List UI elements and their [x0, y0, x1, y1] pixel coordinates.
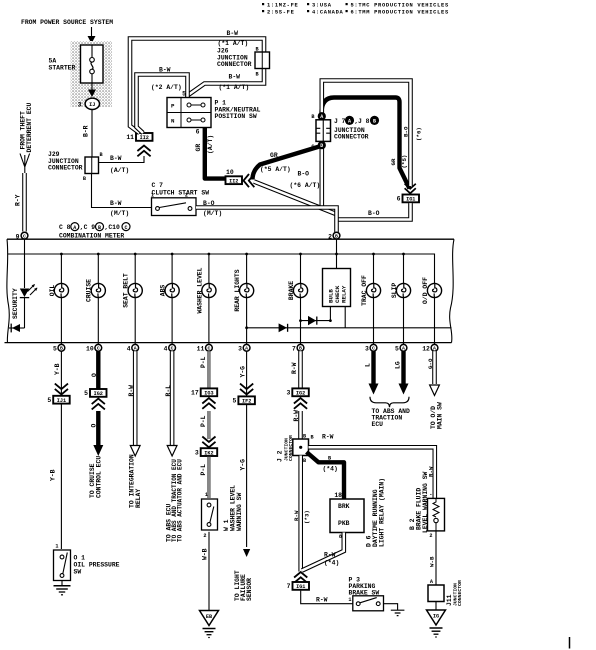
- svg-text:SEAT BELT: SEAT BELT: [123, 273, 130, 308]
- svg-text:3: 3: [286, 390, 290, 397]
- svg-text:(*3): (*3): [303, 510, 310, 524]
- svg-text:(*4): (*4): [323, 466, 338, 473]
- svg-text:2:5S-FE: 2:5S-FE: [267, 10, 295, 16]
- svg-text:G-O: G-O: [427, 358, 434, 369]
- svg-text:L: L: [365, 363, 372, 367]
- svg-text:B-W: B-W: [227, 30, 239, 37]
- svg-text:J 7: J 7: [334, 118, 346, 125]
- svg-text:C: C: [171, 346, 174, 352]
- svg-text:P-L: P-L: [200, 356, 207, 368]
- svg-text:POSITION SW: POSITION SW: [215, 113, 257, 120]
- svg-text:7: 7: [287, 583, 291, 590]
- svg-text:2: 2: [328, 233, 332, 240]
- svg-text:C: C: [23, 234, 26, 240]
- svg-text:P: P: [171, 103, 175, 110]
- svg-text:B-O: B-O: [402, 126, 409, 137]
- svg-text:B-O: B-O: [298, 170, 310, 177]
- svg-text:C: C: [124, 225, 127, 231]
- svg-text:,C10: ,C10: [105, 224, 121, 231]
- svg-text:OIL: OIL: [49, 285, 56, 297]
- svg-text:CRUISE: CRUISE: [86, 279, 93, 302]
- svg-text:5: 5: [53, 345, 57, 352]
- svg-text:SENSOR: SENSOR: [246, 578, 253, 601]
- svg-text:P-L: P-L: [200, 415, 207, 427]
- svg-text:C: C: [372, 346, 375, 352]
- svg-text:(*6 A/T): (*6 A/T): [290, 182, 321, 189]
- svg-text:(*5 A/T): (*5 A/T): [260, 166, 291, 173]
- svg-text:B-O: B-O: [368, 210, 380, 217]
- svg-text:B: B: [83, 176, 86, 182]
- svg-text:B: B: [303, 458, 306, 464]
- svg-text:10: 10: [226, 169, 234, 176]
- svg-text:B: B: [256, 46, 259, 52]
- svg-text:CONNECTOR: CONNECTOR: [457, 580, 463, 606]
- svg-text:4: 4: [127, 345, 131, 352]
- svg-text:P-L: P-L: [200, 464, 207, 476]
- svg-text:IG2: IG2: [296, 391, 305, 397]
- svg-text:2: 2: [429, 533, 432, 539]
- svg-text:9: 9: [16, 233, 20, 240]
- svg-text:W-B: W-B: [202, 548, 209, 560]
- svg-text:CONNECTOR: CONNECTOR: [48, 165, 83, 172]
- svg-text:J 2: J 2: [276, 450, 283, 462]
- svg-text:WARNING SW: WARNING SW: [236, 492, 243, 531]
- svg-text:10: 10: [86, 345, 94, 352]
- svg-text:LEVEL WARNING SW: LEVEL WARNING SW: [422, 471, 429, 533]
- svg-text:SLIP: SLIP: [391, 283, 398, 299]
- svg-text:12: 12: [422, 345, 430, 352]
- svg-text:B-W: B-W: [159, 66, 171, 73]
- svg-text:B: B: [335, 234, 338, 240]
- svg-text:R-W: R-W: [291, 362, 298, 374]
- svg-text:O: O: [90, 424, 97, 428]
- svg-text:J11: J11: [446, 594, 453, 606]
- svg-text:(*5): (*5): [401, 155, 408, 169]
- svg-text:II2: II2: [140, 135, 149, 141]
- svg-text:5: 5: [84, 390, 88, 397]
- svg-text:STARTER: STARTER: [49, 65, 76, 72]
- svg-text:18: 18: [334, 492, 342, 499]
- svg-text:5: 5: [47, 397, 51, 404]
- svg-text:B-W: B-W: [110, 200, 122, 207]
- svg-text:PKB: PKB: [338, 520, 350, 527]
- svg-text:GR: GR: [270, 152, 278, 159]
- svg-text:R-W: R-W: [293, 510, 300, 521]
- svg-text:5A: 5A: [49, 58, 57, 65]
- svg-text:(*2 A/T): (*2 A/T): [151, 84, 182, 91]
- svg-text:RELAY: RELAY: [340, 285, 347, 303]
- svg-text:Y-B: Y-B: [50, 469, 57, 481]
- svg-text:1:1MZ-FE: 1:1MZ-FE: [267, 3, 299, 9]
- svg-text:1: 1: [151, 193, 154, 199]
- svg-text:C: C: [97, 346, 100, 352]
- svg-text:2: 2: [203, 533, 206, 539]
- svg-text:1: 1: [55, 544, 58, 550]
- svg-text:7: 7: [292, 345, 296, 352]
- svg-text:11: 11: [197, 345, 205, 352]
- svg-text:IG: IG: [433, 614, 439, 620]
- svg-text:C: C: [207, 346, 210, 352]
- svg-text:C 8: C 8: [59, 224, 71, 231]
- svg-text:Y-B: Y-B: [54, 363, 61, 375]
- svg-text:J 8: J 8: [358, 118, 370, 125]
- svg-text:R-L: R-L: [165, 385, 172, 397]
- svg-text:5:TMC PRODUCTION VEHICLES: 5:TMC PRODUCTION VEHICLES: [351, 3, 449, 9]
- svg-text:R-W: R-W: [293, 410, 300, 422]
- svg-text:B: B: [256, 71, 259, 77]
- svg-text:B: B: [373, 118, 376, 124]
- svg-text:IJ: IJ: [89, 102, 95, 108]
- svg-text:CLUTCH START SW: CLUTCH START SW: [152, 189, 210, 196]
- svg-text:4:CANADA: 4:CANADA: [312, 10, 344, 16]
- svg-text:6: 6: [397, 196, 401, 203]
- svg-text:(M/T): (M/T): [110, 210, 129, 217]
- svg-text:Y-G: Y-G: [239, 366, 246, 378]
- svg-text:O 1: O 1: [74, 555, 86, 562]
- svg-text:ECU: ECU: [372, 421, 384, 428]
- svg-text:(A/T): (A/T): [110, 167, 129, 174]
- svg-text:B: B: [98, 225, 101, 231]
- svg-text:R-W: R-W: [322, 433, 334, 440]
- svg-text:R-W: R-W: [316, 596, 328, 603]
- svg-text:IG1: IG1: [406, 197, 415, 203]
- svg-text:REAR LIGHTS: REAR LIGHTS: [234, 269, 241, 311]
- svg-text:CONNECTOR: CONNECTOR: [288, 435, 294, 461]
- svg-text:N: N: [171, 118, 175, 125]
- svg-text:-: -: [429, 491, 432, 498]
- svg-text:IJ1: IJ1: [57, 398, 66, 404]
- svg-text:2: 2: [185, 193, 188, 199]
- svg-text:17: 17: [191, 390, 199, 397]
- svg-text:W-B: W-B: [429, 556, 436, 567]
- svg-text:GR: GR: [195, 144, 202, 152]
- svg-text:(A/T): (A/T): [207, 135, 214, 154]
- svg-text:B: B: [60, 346, 63, 352]
- svg-text:B-W: B-W: [229, 74, 241, 81]
- svg-text:B: B: [311, 434, 314, 440]
- svg-text:(*6): (*6): [416, 127, 423, 141]
- svg-text:11: 11: [126, 134, 134, 141]
- svg-text:6:TMM PRODUCTION VEHICLES: 6:TMM PRODUCTION VEHICLES: [351, 10, 449, 16]
- svg-text:,C 9: ,C 9: [80, 224, 96, 231]
- svg-text:R-W: R-W: [324, 552, 336, 559]
- svg-text:II2: II2: [229, 178, 238, 184]
- svg-text:B-W: B-W: [110, 155, 122, 162]
- svg-text:IG3: IG3: [204, 391, 213, 397]
- svg-text:5: 5: [182, 90, 186, 97]
- svg-text:6: 6: [196, 128, 200, 135]
- svg-text:3:USA: 3:USA: [312, 3, 332, 9]
- svg-text:TRAC OFF: TRAC OFF: [361, 275, 368, 306]
- svg-text:(M/T): (M/T): [203, 210, 222, 217]
- svg-text:OIL PRESSURE: OIL PRESSURE: [74, 562, 120, 569]
- svg-text:(*1 A/T): (*1 A/T): [218, 40, 249, 47]
- svg-text:O/D OFF: O/D OFF: [422, 277, 429, 304]
- svg-text:IG2: IG2: [94, 391, 103, 397]
- svg-text:BRK: BRK: [338, 503, 350, 510]
- svg-text:1: 1: [348, 597, 351, 603]
- svg-text:SW: SW: [74, 569, 82, 576]
- svg-text:A: A: [402, 346, 405, 352]
- svg-text:3: 3: [365, 345, 369, 352]
- svg-text:C 7: C 7: [152, 182, 164, 189]
- svg-text:IG1: IG1: [296, 584, 305, 590]
- svg-text:A: A: [245, 346, 248, 352]
- svg-text:A: A: [433, 346, 436, 352]
- svg-text:SECURITY: SECURITY: [12, 288, 19, 319]
- svg-text:Y-G: Y-G: [239, 459, 246, 471]
- svg-text:RELAY: RELAY: [135, 489, 142, 508]
- svg-text:IF2: IF2: [242, 399, 251, 405]
- svg-text:5: 5: [395, 345, 399, 352]
- svg-text:O: O: [91, 373, 98, 377]
- svg-text:B-R: B-R: [83, 125, 90, 137]
- svg-text:(*4): (*4): [324, 560, 339, 567]
- svg-text:WASHER LEVEL: WASHER LEVEL: [196, 267, 203, 313]
- svg-text:B: B: [299, 346, 302, 352]
- svg-text:A: A: [320, 114, 323, 120]
- svg-text:(*1 A/T): (*1 A/T): [219, 84, 250, 91]
- svg-text:CONTROL ECU: CONTROL ECU: [96, 456, 103, 498]
- svg-text:B: B: [100, 152, 103, 158]
- svg-text:D: D: [320, 143, 323, 149]
- svg-text:R-W: R-W: [128, 385, 135, 397]
- svg-text:3: 3: [78, 101, 82, 108]
- svg-text:A: A: [348, 118, 351, 124]
- svg-text:GR: GR: [390, 158, 397, 165]
- svg-text:ABS: ABS: [160, 285, 167, 297]
- svg-text:R-Y: R-Y: [14, 194, 21, 206]
- svg-text:5: 5: [233, 398, 237, 405]
- svg-text:TO ABS ACTUATOR AND ECU: TO ABS ACTUATOR AND ECU: [177, 459, 184, 542]
- svg-text:3: 3: [195, 449, 199, 456]
- svg-text:FROM POWER SOURCE SYSTEM: FROM POWER SOURCE SYSTEM: [21, 19, 113, 26]
- svg-text:DETERRENT ECU: DETERRENT ECU: [26, 102, 33, 152]
- svg-text:BRAKE: BRAKE: [288, 281, 295, 300]
- svg-text:LG: LG: [395, 361, 402, 369]
- svg-text:1: 1: [205, 492, 208, 498]
- svg-text:4: 4: [164, 345, 168, 352]
- svg-text:MAIN SW: MAIN SW: [437, 402, 444, 429]
- svg-text:EB: EB: [206, 614, 212, 620]
- svg-text:3: 3: [238, 345, 242, 352]
- svg-text:B: B: [328, 455, 331, 461]
- svg-text:A: A: [73, 225, 76, 231]
- svg-text:CONNECTOR: CONNECTOR: [334, 134, 369, 141]
- svg-text:CONNECTOR: CONNECTOR: [217, 61, 252, 68]
- svg-text:COMBINATION METER: COMBINATION METER: [59, 232, 124, 239]
- svg-text:B: B: [311, 114, 314, 120]
- svg-text:IK2: IK2: [204, 450, 213, 456]
- svg-text:B-O: B-O: [203, 200, 215, 207]
- svg-text:A: A: [134, 346, 137, 352]
- svg-text:LIGHT RELAY (MAIN): LIGHT RELAY (MAIN): [379, 478, 386, 547]
